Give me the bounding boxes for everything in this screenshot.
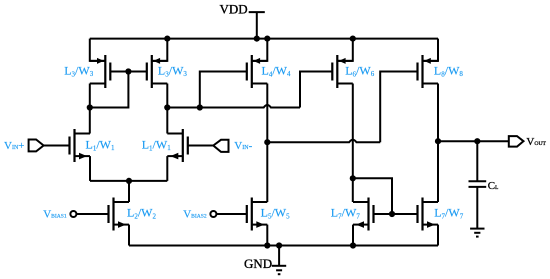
ground symbol GND [244, 256, 286, 274]
wire M6 drain to M7a drain [352, 84, 354, 203]
wire GND rail [129, 245, 438, 247]
svg-text:L8/W8: L8/W8 [434, 63, 464, 78]
wire M3b source to VDD rail [152, 39, 168, 61]
wire output node to VOUT [438, 140, 509, 142]
transistor M6 L6/W6 (PMOS) [332, 55, 353, 88]
wire node X to M6 gate (hop over M4 drain) [167, 105, 300, 108]
svg-text:VOUT: VOUT [526, 136, 546, 148]
junction L7 gates [389, 211, 395, 217]
wire M1b gate to VIN- [188, 145, 214, 147]
wire VBIAS1 to M2 gate [77, 213, 109, 215]
wire M3a diode connection [90, 72, 129, 108]
svg-text:L6/W6: L6/W6 [345, 63, 375, 78]
svg-text:L5/W5: L5/W5 [261, 206, 291, 221]
power symbol VDD [220, 2, 265, 39]
junction node X at M3b drain [164, 104, 170, 110]
svg-text:L1/W1: L1/W1 [142, 137, 172, 152]
wire M3a drain / M1a drain [89, 84, 91, 134]
svg-text:VBIAS2: VBIAS2 [183, 209, 207, 221]
junction node Y [264, 139, 270, 145]
wire M3a gate to mirror node [110, 71, 147, 73]
junction CL tap [474, 138, 480, 144]
svg-text:VDD: VDD [220, 2, 248, 17]
wire node Y to M8 gate (hop over M6 drain) [267, 140, 380, 143]
capacitor CL [469, 180, 500, 192]
junction node Z [350, 175, 356, 181]
wire M7b source to GND rail [437, 225, 439, 246]
wire M8 source to VDD rail [423, 39, 439, 61]
transistor M8 L8/W8 (PMOS) [418, 55, 439, 88]
wire VBIAS2 to M5 gate [217, 213, 247, 215]
input port VIN+ [4, 140, 44, 153]
junction rail-VDD tap [254, 36, 260, 42]
transistor M2 L2/W2 (NMOS) [109, 198, 130, 231]
junction GND rail-M5 source [264, 242, 270, 248]
wire VDD rail [90, 38, 438, 40]
transistor M5 L5/W5 (NMOS) [247, 198, 267, 231]
wire VOUT to CL [476, 141, 478, 181]
junction mirror gates [125, 68, 131, 74]
transistor M4 L4/W4 (PMOS) [247, 55, 267, 88]
wire M2 drain riser [128, 181, 130, 202]
svg-text:L4/W4: L4/W4 [262, 63, 292, 78]
wire M1b source to tail [166, 156, 168, 181]
wire M3a source to VDD rail [90, 39, 106, 61]
output port VOUT [509, 136, 547, 148]
svg-text:VBIAS1: VBIAS1 [43, 209, 67, 221]
wire M7a source to GND rail [352, 225, 354, 246]
wire M3b drain / M1b drain [166, 84, 168, 134]
svg-text:L2/W2: L2/W2 [127, 206, 157, 221]
svg-text:L1/W1: L1/W1 [86, 137, 116, 152]
svg-text:VIN+: VIN+ [4, 140, 25, 152]
wire ground tap [278, 246, 280, 266]
ground symbol (CL) [470, 229, 484, 237]
wire M6 source to VDD rail [337, 39, 353, 61]
transistor M3b L3/W3 (PMOS) [147, 55, 168, 88]
transistor M1a L1/W1 (NMOS input +) [70, 129, 91, 162]
bias terminal VBIAS2 [183, 209, 216, 221]
wire node Z to L7 gates [353, 178, 392, 214]
junction rail-M3b source [164, 36, 170, 42]
svg-text:VIN-: VIN- [234, 140, 252, 152]
svg-text:L7/W7: L7/W7 [434, 206, 464, 221]
svg-text:L3/W3: L3/W3 [158, 63, 188, 78]
wire M4 source to VDD rail [252, 39, 267, 61]
wire L7 mirror gate line [373, 213, 417, 215]
input port VIN- [213, 140, 252, 152]
svg-text:GND: GND [244, 256, 272, 271]
wire M5 source to GND rail [266, 225, 268, 246]
transistor M3a L3/W3 (PMOS diode) [90, 55, 111, 88]
junction tail-M2 drain [126, 178, 132, 184]
transistor M7b L7/W7 (NMOS) [418, 198, 439, 231]
wire M8 gate riser [380, 72, 417, 143]
wire CL to ground [476, 187, 478, 228]
wire M6 gate riser [300, 72, 332, 108]
junction GND rail-ground tap [276, 242, 282, 248]
svg-text:L3/W3: L3/W3 [64, 63, 94, 78]
junction rail-M6 source [350, 36, 356, 42]
junction M4 gate tap [197, 104, 203, 110]
junction M3a drain-diode [87, 104, 93, 110]
wire M1a source to tail [89, 156, 91, 181]
transistor M7a L7/W7 (NMOS diode) [353, 198, 374, 231]
wire M2 source to GND rail [128, 225, 130, 246]
transistor M1b L1/W1 (NMOS input -) [167, 129, 188, 162]
junction output node [435, 138, 441, 144]
wire VIN+ to M1a gate [44, 145, 70, 147]
svg-text:CL: CL [488, 180, 499, 192]
svg-text:L7/W7: L7/W7 [331, 206, 361, 221]
junction GND rail-M7a [350, 242, 356, 248]
bias terminal VBIAS1 [43, 209, 76, 221]
wire tail node [90, 180, 167, 182]
wire M8 drain to M7b drain [437, 84, 439, 203]
junction rail-M4 source [264, 36, 270, 42]
wire node X riser to M4 gate [200, 72, 247, 108]
wire M4 drain to M5 drain [266, 84, 268, 203]
